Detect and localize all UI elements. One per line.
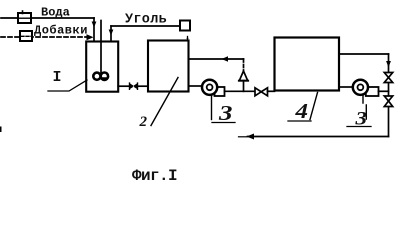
svg-text:3: 3 xyxy=(218,101,233,125)
arrow on return line (pointing left) xyxy=(247,134,255,140)
underline second label 3 xyxy=(347,126,371,128)
wire vessel2 to pump 3 xyxy=(189,85,203,87)
wire right riser xyxy=(388,54,390,137)
svg-text:I: I xyxy=(53,69,62,86)
svg-text:2: 2 xyxy=(139,114,148,130)
wire water downpipe xyxy=(93,18,95,42)
wire vessel4 top outlet to right riser xyxy=(339,53,389,55)
flowmeter box on additives line xyxy=(20,31,32,41)
valve (filled) between vessel 1 and 2 xyxy=(130,83,138,89)
arrow additives join xyxy=(87,34,94,40)
valve (vertical bowtie) upper on riser xyxy=(384,73,392,78)
arrow coal into vessel xyxy=(109,30,114,36)
underline label 3 xyxy=(212,122,235,124)
gate valve (bowtie) on discharge xyxy=(255,88,261,96)
svg-text:Добавки: Добавки xyxy=(34,23,88,38)
wire recycle return to vessel 2 xyxy=(189,58,244,60)
wire pump 3a discharge to riser xyxy=(379,90,389,92)
agitator impeller right circle xyxy=(101,73,108,80)
stub above vessel2 corner xyxy=(187,37,189,41)
wire additives dashed line xyxy=(1,36,86,38)
wire dashed drop to relief valve xyxy=(243,59,245,71)
mixer vessel 1 xyxy=(86,42,118,92)
leader line for label 2 xyxy=(151,78,178,126)
wire coal line xyxy=(111,25,180,27)
wire return line stub xyxy=(239,136,247,138)
arrow water into vessel xyxy=(92,22,97,28)
arrow down on riser xyxy=(386,61,391,68)
speck left edge xyxy=(0,128,2,132)
vessel 2 xyxy=(148,41,189,92)
svg-text:Вода: Вода xyxy=(41,6,70,20)
svg-text:Фиг.I: Фиг.I xyxy=(132,167,177,185)
wire valve to vessel 4 xyxy=(268,90,275,92)
wire pump 3 discharge xyxy=(225,90,256,92)
flowmeter box on water line xyxy=(18,13,31,23)
leader line pump 3 xyxy=(211,96,213,120)
valve (vertical bowtie) lower on riser xyxy=(384,96,392,101)
agitator impeller left circle xyxy=(93,73,100,80)
speck below coal box xyxy=(187,38,189,40)
wire vessel4 to pump 3a xyxy=(339,86,353,88)
wire water feed line xyxy=(1,17,94,19)
flowmeter box on coal line xyxy=(180,21,190,31)
vessel 4 xyxy=(275,38,340,91)
wire valve to vessel 2 xyxy=(138,85,149,87)
wire relief valve to discharge line xyxy=(243,81,245,92)
underline label 4 xyxy=(288,120,311,122)
pump 3a (circle with volute) xyxy=(366,87,379,96)
svg-text:4: 4 xyxy=(294,99,308,123)
relief valve (triangle) xyxy=(239,71,247,81)
leader line for label 4 xyxy=(310,93,318,120)
pump 3 (circle with volute) xyxy=(215,87,225,96)
wire coal downpipe xyxy=(110,26,112,42)
wire vessel1 outlet xyxy=(118,85,129,87)
arrow on recycle line (pointing left) xyxy=(222,56,229,62)
leader line pump 3a xyxy=(363,96,366,119)
agitator right circle bottom fill xyxy=(101,77,108,79)
agitator shaft xyxy=(100,21,102,73)
wire bottom return line xyxy=(248,136,389,138)
leader line for label I xyxy=(48,80,87,91)
speck period after water label xyxy=(67,14,69,16)
